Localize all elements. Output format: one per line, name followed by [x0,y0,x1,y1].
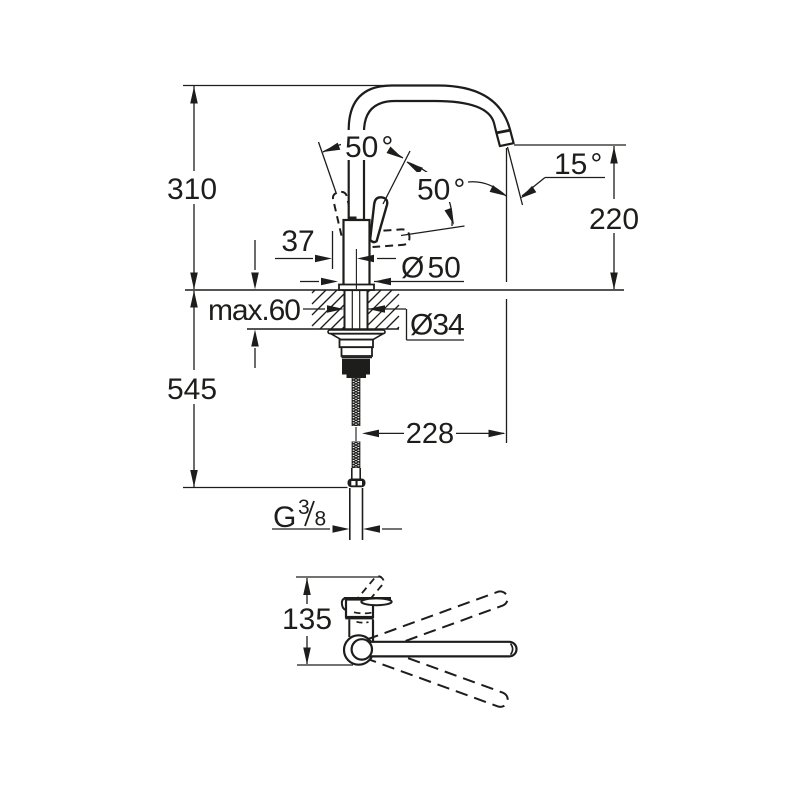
arc 15deg with tail [468,182,506,196]
svg-text:Ø: Ø [401,252,424,285]
svg-text:8: 8 [315,508,327,531]
washer plate [328,330,385,334]
leader 15deg [522,178,605,197]
body-pipe junction [350,217,357,221]
label max.60 [208,294,300,327]
reference line bottom (545 end) [183,487,348,489]
top view lever top line [344,597,391,600]
braided hose upper [352,374,361,433]
angle leg left [319,142,337,194]
dimension dia50 left arrow [300,278,338,286]
dimension 220 arrows [610,147,618,290]
faucet body [344,220,370,290]
label dia34 [410,309,464,342]
svg-text:50°: 50° [345,131,393,164]
top view body box [346,600,373,618]
dashed spout down position [360,642,510,709]
escutcheon outer circle [344,635,373,664]
label 50deg right [417,174,465,207]
hose center line at break [355,427,357,441]
dimension 310 arrows [190,87,198,290]
dashed handle right (open position) [370,229,409,247]
dimension 37 left [275,255,332,263]
svg-text:15°: 15° [554,148,602,181]
dimension 545 arrows [190,291,198,488]
top view reference line lower [297,664,353,666]
extension line from spout tip [506,148,508,443]
svg-text:135: 135 [282,603,332,636]
dimension G38 right [363,525,402,533]
shank [345,290,368,329]
label 310 [167,173,217,206]
dashed spout up position [359,589,509,656]
top view reference line upper [296,576,382,578]
dimension 228 arrows [362,430,506,438]
max.60 lower arrow [251,330,259,369]
hose neck [352,468,360,479]
label 135 [282,603,332,636]
label 15deg [554,148,602,181]
dimension G38 left [272,525,350,533]
dimension 545 vertical line [193,291,195,487]
aerator band line [496,130,510,133]
label 545 [167,373,217,406]
svg-text:228: 228 [406,418,454,450]
top view dashed handle up [354,574,385,609]
arc 50deg top [323,142,403,158]
max.60 upper arrow [251,240,259,290]
svg-text:max.60: max.60 [208,294,300,327]
dashed handle left (closed position) [332,191,355,236]
white mask behind 50deg right [413,172,465,202]
braided hose lower [352,438,361,476]
svg-text:50°: 50° [417,174,465,207]
arc 50deg right [407,162,452,226]
top view lower column [349,620,373,642]
label 8 [315,508,327,531]
svg-text:50: 50 [428,252,461,285]
label 220 [589,203,639,236]
dimension 135 line [306,578,308,664]
top view dashed hidden line lower [357,621,369,624]
dimension 37 right [357,255,396,263]
dimension dia34 left arrow [303,305,344,313]
svg-text:310: 310 [167,173,217,206]
slash 3/8 [305,501,314,526]
arrowhead 15deg right [520,186,536,199]
dimension 220 vertical line [613,146,615,289]
center line [355,249,357,289]
white mask behind 50deg top [341,130,393,160]
label dia50 [401,252,461,285]
cone flange [331,334,383,340]
connection tube [350,488,363,540]
base flange [339,285,374,291]
label 37 [281,225,314,258]
leader dia34 [407,309,465,340]
top view paddle ellipse [361,598,391,605]
label 50deg top [345,131,393,164]
top view dashed hidden line upper [354,612,372,613]
mounting nut lower [342,347,373,356]
svg-text:37: 37 [281,225,314,258]
svg-text:545: 545 [167,373,217,406]
label 228 [406,418,454,450]
arrowhead 50deg right bottom [445,208,455,225]
label G [273,501,296,534]
dimension 228 line [369,432,504,434]
arrowhead 15deg left [490,185,507,196]
deck hatching [312,290,399,329]
dimension 310 vertical line [193,86,195,289]
faucet spout tube [349,86,514,221]
reference line top (spout apex level) [183,85,392,87]
solid handle (mid position) [370,197,387,242]
nut bottom line [342,357,373,359]
inner circle (tube cap) [352,639,372,659]
dimension dia50 right arrow [374,278,464,286]
line 15deg slanted [508,147,523,205]
arrowhead arc left [323,143,340,152]
top view paddle left cap [342,599,345,610]
angle leg right [383,151,410,204]
arrowhead bowtie A [387,147,404,159]
svg-text:Ø34: Ø34 [410,309,464,342]
axis line of open handle [401,226,465,236]
dimension 135 arrows [303,578,311,665]
hose nut [348,479,366,488]
svg-text:220: 220 [589,203,639,236]
mounting nut upper [340,340,374,348]
black adapter block [342,359,370,378]
solid spout tube top view [362,642,517,657]
arrowhead bowtie B [407,162,423,174]
reference line spout tip [514,144,626,146]
dimension dia34 right arrow [368,305,406,313]
label 3 [298,496,310,519]
deck top line [185,289,624,291]
extension line 37 [332,231,334,269]
deck bottom line [247,328,399,330]
top view body step [345,616,373,619]
